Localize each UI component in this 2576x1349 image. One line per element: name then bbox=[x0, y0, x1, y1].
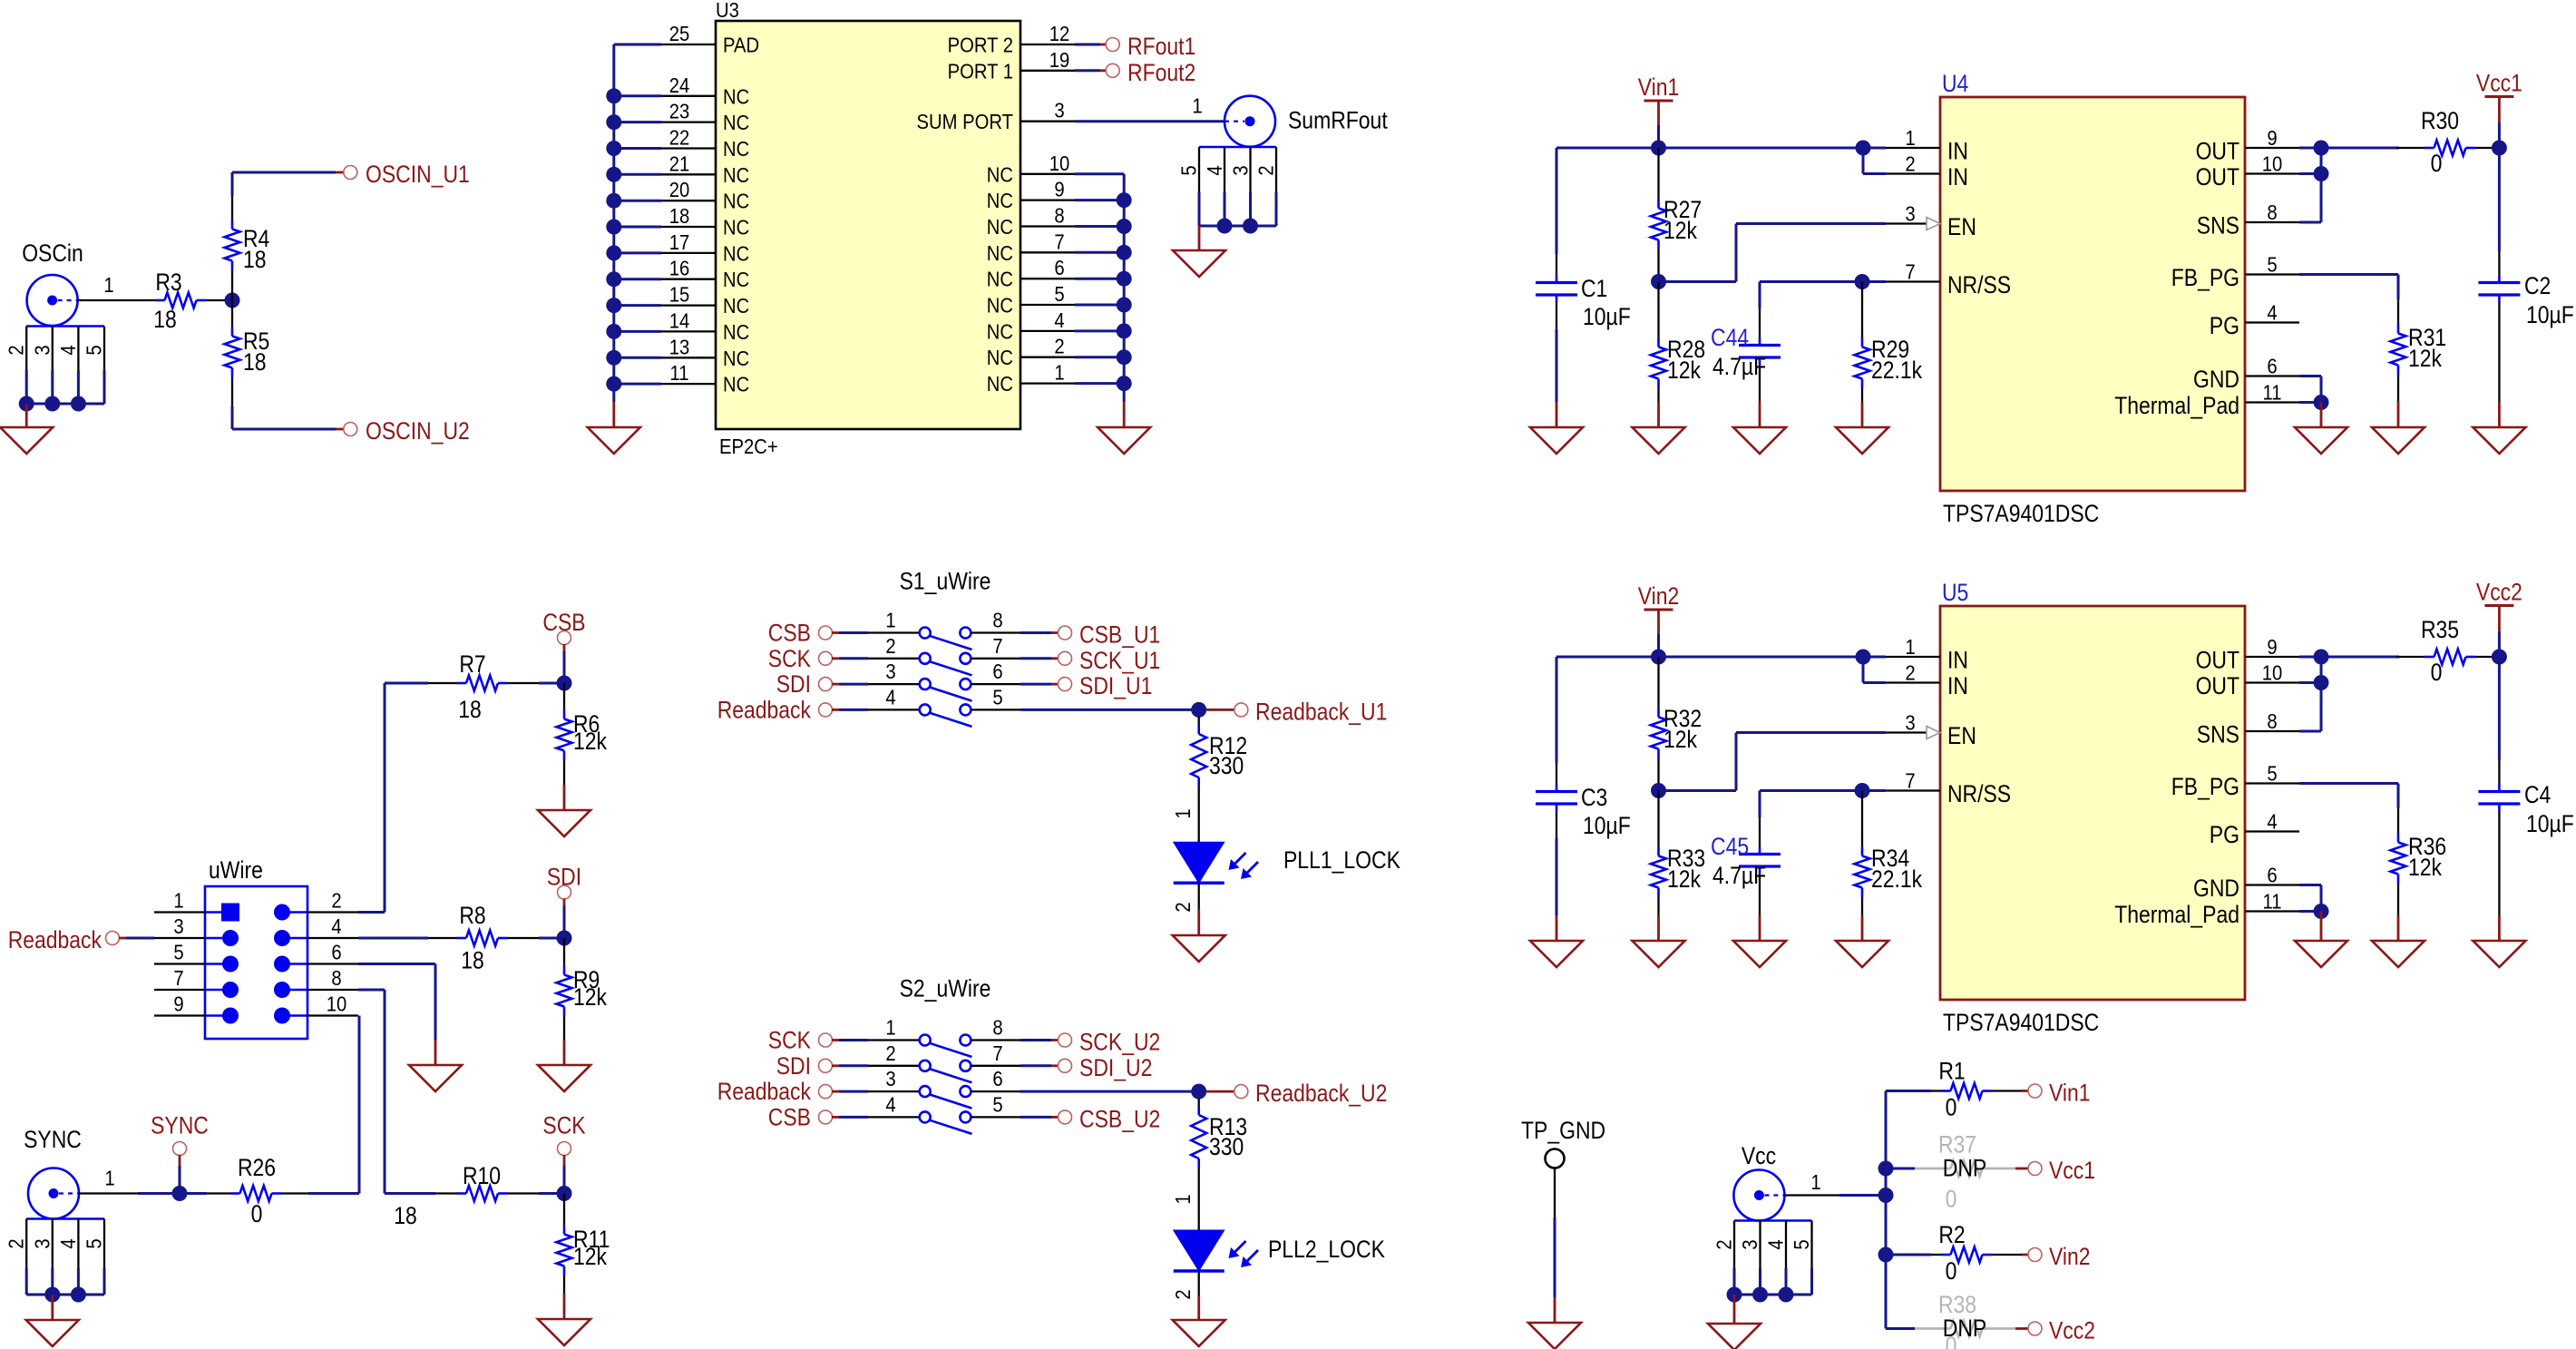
svg-text:NC: NC bbox=[723, 163, 749, 187]
svg-text:5: 5 bbox=[992, 685, 1002, 709]
svg-text:4: 4 bbox=[1054, 308, 1064, 332]
svg-text:R35: R35 bbox=[2421, 616, 2459, 643]
resistor R27 12k bbox=[1651, 148, 1702, 282]
svg-text:R1: R1 bbox=[1938, 1058, 1965, 1085]
connector uWire header body bbox=[205, 856, 307, 1039]
svg-text:12k: 12k bbox=[573, 728, 607, 755]
svg-text:6: 6 bbox=[992, 660, 1002, 683]
ground Vcc shield bbox=[1708, 1295, 1761, 1349]
svg-text:NR/SS: NR/SS bbox=[1947, 271, 2011, 298]
resistor R26 0 bbox=[187, 1154, 308, 1227]
svg-text:21: 21 bbox=[669, 152, 690, 175]
uWire pin 3 bbox=[154, 914, 239, 946]
U4 pin 10 OUT bbox=[2196, 152, 2299, 191]
resistor R38 DNP bbox=[1886, 1291, 2028, 1349]
svg-text:CSB_U2: CSB_U2 bbox=[1079, 1105, 1160, 1132]
wire NR/SS net bbox=[1760, 791, 1886, 847]
U5 pin 7 NR/SS bbox=[1886, 769, 2011, 808]
resistor R3 18 bbox=[153, 269, 206, 333]
svg-text:9: 9 bbox=[173, 992, 183, 1016]
port RFout2 bbox=[1106, 59, 1195, 86]
svg-text:24: 24 bbox=[669, 73, 690, 97]
svg-text:4: 4 bbox=[2267, 810, 2277, 834]
svg-text:NC: NC bbox=[723, 241, 749, 265]
svg-text:3: 3 bbox=[885, 1067, 895, 1090]
svg-text:1: 1 bbox=[1905, 126, 1915, 150]
U3 pin 17 NC bbox=[661, 230, 749, 266]
U5 pin 11 Thermal_Pad bbox=[2114, 890, 2299, 929]
svg-text:Vin2: Vin2 bbox=[1638, 582, 1680, 610]
svg-text:1: 1 bbox=[1810, 1170, 1820, 1194]
resistor R29 22.1k bbox=[1855, 282, 1923, 403]
svg-text:1: 1 bbox=[103, 273, 113, 297]
svg-text:4.7µF: 4.7µF bbox=[1712, 862, 1766, 889]
resistor R9 12k bbox=[557, 938, 608, 1040]
svg-text:OSCIN_U1: OSCIN_U1 bbox=[366, 161, 470, 188]
U4 pin 3 EN bbox=[1886, 202, 1976, 241]
ground U3 right bus bbox=[1098, 402, 1150, 454]
svg-text:DNP: DNP bbox=[1943, 1315, 1987, 1342]
junction divider node bbox=[1651, 783, 1666, 798]
switch pole S2_uWire pin 4 bbox=[885, 1092, 971, 1134]
svg-text:SCK_U2: SCK_U2 bbox=[1079, 1029, 1160, 1056]
port SCK_U2 bbox=[1059, 1029, 1161, 1056]
switch pole S1_uWire pin 4 bbox=[885, 685, 971, 727]
ground C44 bbox=[1733, 402, 1786, 454]
svg-text:2: 2 bbox=[1712, 1239, 1736, 1249]
connector Vcc (SMA) bbox=[1712, 1142, 1814, 1295]
svg-text:R7: R7 bbox=[459, 650, 485, 678]
svg-text:EN: EN bbox=[1947, 213, 1976, 240]
resistor R37 DNP bbox=[1886, 1131, 2028, 1213]
junction Thermal_Pad bbox=[2314, 904, 2329, 919]
wire OUT/SNS bus bbox=[2299, 148, 2399, 222]
svg-text:PORT 2: PORT 2 bbox=[948, 34, 1013, 57]
svg-text:11: 11 bbox=[2263, 890, 2282, 914]
svg-text:U3: U3 bbox=[716, 0, 739, 22]
svg-text:SCK_U1: SCK_U1 bbox=[1079, 647, 1160, 674]
U3 pin 10 NC bbox=[987, 152, 1075, 187]
capacitor C45 4.7µF bbox=[1711, 833, 1781, 915]
U4 pin 2 IN bbox=[1886, 152, 1968, 191]
port Readback (S1_uWire pin 4) bbox=[717, 696, 920, 723]
port OSCIN_U2 bbox=[344, 417, 470, 445]
switch pole S2_uWire pin 2 bbox=[885, 1041, 971, 1083]
junction dots SYNC shield bbox=[44, 1287, 86, 1303]
svg-text:0: 0 bbox=[2431, 150, 2443, 177]
wire R5 to OSCIN_U2 bbox=[232, 406, 344, 429]
svg-text:TP_GND: TP_GND bbox=[1521, 1117, 1605, 1144]
svg-text:SumRFout: SumRFout bbox=[1288, 107, 1388, 134]
ground TP_GND bbox=[1528, 1297, 1581, 1349]
svg-text:8: 8 bbox=[2267, 200, 2277, 224]
capacitor C2 10µF bbox=[2478, 148, 2573, 402]
junction CSB node bbox=[557, 676, 572, 691]
wire S1_uWire pin 6 to SDI_U1 bbox=[1020, 683, 1059, 686]
node A junction bbox=[225, 293, 240, 308]
svg-text:R30: R30 bbox=[2421, 107, 2459, 134]
svg-text:NC: NC bbox=[987, 268, 1013, 291]
svg-text:6: 6 bbox=[331, 941, 341, 964]
svg-text:NC: NC bbox=[987, 215, 1013, 239]
resistor R7 18 bbox=[428, 650, 539, 723]
svg-text:2: 2 bbox=[5, 1238, 28, 1248]
junction Vcc2 node bbox=[2492, 650, 2507, 665]
svg-text:PG: PG bbox=[2210, 312, 2239, 339]
switch pole S1_uWire pin 8 bbox=[960, 609, 1020, 639]
svg-text:NR/SS: NR/SS bbox=[1947, 780, 2011, 807]
svg-text:10: 10 bbox=[1049, 152, 1070, 175]
resistor R1 0 bbox=[1931, 1058, 2028, 1121]
svg-text:EN: EN bbox=[1947, 722, 1976, 749]
power port Vin1 bbox=[1638, 73, 1680, 148]
svg-text:NC: NC bbox=[987, 372, 1013, 396]
svg-text:2: 2 bbox=[1171, 1289, 1195, 1299]
svg-text:5: 5 bbox=[2267, 253, 2277, 277]
svg-text:NC: NC bbox=[987, 346, 1013, 369]
svg-text:CSB_U1: CSB_U1 bbox=[1079, 621, 1160, 649]
wire uWire pin4 to R8 bbox=[358, 937, 428, 940]
capacitor C4 10µF bbox=[2478, 657, 2573, 915]
svg-text:12: 12 bbox=[1049, 22, 1070, 45]
ground SumRFout shield bbox=[1173, 226, 1225, 277]
ground R9 bbox=[538, 1040, 590, 1091]
U3 pin 4 NC bbox=[987, 308, 1075, 344]
svg-text:12k: 12k bbox=[1664, 726, 1697, 753]
svg-text:Readback_U2: Readback_U2 bbox=[1255, 1080, 1387, 1107]
svg-text:4: 4 bbox=[56, 345, 80, 355]
svg-text:IN: IN bbox=[1947, 647, 1968, 674]
svg-text:IN: IN bbox=[1947, 138, 1968, 165]
port SYNC bbox=[151, 1112, 209, 1194]
port SDI (S2_uWire pin 2) bbox=[776, 1052, 920, 1080]
U3 pin 2 NC bbox=[987, 335, 1075, 370]
svg-text:10: 10 bbox=[2262, 152, 2283, 176]
junction Vin1 node bbox=[1651, 141, 1666, 156]
svg-text:C4: C4 bbox=[2524, 781, 2551, 808]
svg-text:Readback_U1: Readback_U1 bbox=[1255, 698, 1387, 725]
svg-text:12k: 12k bbox=[573, 983, 607, 1011]
uWire pin 1 bbox=[154, 889, 239, 922]
svg-text:13: 13 bbox=[669, 335, 690, 358]
svg-text:10: 10 bbox=[327, 992, 347, 1016]
svg-text:10µF: 10µF bbox=[2526, 301, 2574, 328]
svg-text:SYNC: SYNC bbox=[151, 1112, 209, 1139]
port SCK (S2_uWire pin 1) bbox=[768, 1027, 920, 1054]
svg-text:3: 3 bbox=[30, 1238, 54, 1248]
svg-text:CSB: CSB bbox=[768, 1103, 811, 1130]
svg-text:7: 7 bbox=[1905, 769, 1915, 793]
svg-text:10µF: 10µF bbox=[1583, 812, 1631, 839]
svg-text:6: 6 bbox=[1054, 256, 1064, 279]
wire Vin1 rail bbox=[1556, 148, 1886, 174]
wire uWire pin6 to ground bbox=[358, 964, 435, 1041]
switch pole S2_uWire pin 5 bbox=[960, 1092, 1020, 1122]
svg-text:1: 1 bbox=[173, 889, 183, 913]
svg-text:C44: C44 bbox=[1711, 324, 1749, 351]
junction dots Vcc shield bbox=[1727, 1287, 1794, 1303]
svg-text:IN: IN bbox=[1947, 672, 1968, 699]
svg-text:2: 2 bbox=[1254, 165, 1278, 175]
capacitor C1 10µF bbox=[1536, 148, 1631, 402]
IC U5 TPS7A9401DSC body bbox=[1940, 579, 2245, 1036]
svg-text:SCK: SCK bbox=[768, 645, 811, 672]
wire OSCin pin1 to R3 bbox=[78, 273, 155, 300]
svg-text:S1_uWire: S1_uWire bbox=[900, 568, 991, 595]
junction OUT9 bbox=[2314, 141, 2329, 156]
svg-text:4: 4 bbox=[56, 1238, 80, 1248]
svg-text:20: 20 bbox=[669, 178, 690, 201]
svg-text:25: 25 bbox=[669, 22, 690, 45]
svg-text:8: 8 bbox=[1054, 204, 1064, 228]
svg-text:5: 5 bbox=[2267, 762, 2277, 786]
port Readback (S2_uWire pin 3) bbox=[717, 1078, 920, 1105]
svg-text:SNS: SNS bbox=[2197, 721, 2239, 748]
ground LED D1 bbox=[1173, 909, 1225, 962]
port SDI (S1_uWire pin 3) bbox=[776, 670, 920, 698]
wire Vin2 rail bbox=[1556, 657, 1886, 683]
svg-text:RFout1: RFout1 bbox=[1127, 33, 1195, 60]
wire R8 to SDI node bbox=[539, 937, 557, 940]
connector SumRFout (SMA) bbox=[1177, 96, 1389, 226]
U5 pin 1 IN bbox=[1886, 635, 1968, 674]
svg-text:PLL2_LOCK: PLL2_LOCK bbox=[1268, 1236, 1385, 1263]
svg-text:10µF: 10µF bbox=[2526, 810, 2574, 837]
svg-text:Vcc: Vcc bbox=[1742, 1142, 1776, 1169]
wire S2_uWire to Readback_U2 node bbox=[1020, 1090, 1192, 1093]
ground R29 bbox=[1836, 402, 1888, 454]
svg-text:1: 1 bbox=[1171, 808, 1195, 818]
svg-text:GND: GND bbox=[2193, 875, 2239, 902]
svg-text:4: 4 bbox=[885, 685, 895, 709]
resistor R2 0 bbox=[1931, 1221, 2028, 1285]
svg-text:NC: NC bbox=[723, 216, 749, 239]
svg-text:FB_PG: FB_PG bbox=[2171, 773, 2239, 800]
port SCK (S1_uWire pin 2) bbox=[768, 645, 920, 672]
svg-text:Thermal_Pad: Thermal_Pad bbox=[2114, 392, 2239, 419]
wire SUM PORT to SumRFout bbox=[1075, 94, 1225, 122]
U5 pin 9 OUT bbox=[2196, 635, 2299, 674]
svg-text:11: 11 bbox=[2263, 381, 2282, 405]
wire Vcc distribution bus bbox=[1886, 1091, 1931, 1329]
resistor R32 12k bbox=[1651, 657, 1702, 791]
svg-text:2: 2 bbox=[1905, 661, 1915, 685]
svg-text:18: 18 bbox=[243, 348, 267, 376]
svg-text:CSB: CSB bbox=[768, 620, 811, 647]
uWire pin 9 bbox=[154, 992, 239, 1024]
svg-text:3: 3 bbox=[1905, 711, 1915, 735]
U3 pin 18 NC bbox=[661, 204, 749, 239]
svg-text:OUT: OUT bbox=[2196, 163, 2239, 191]
ground C3 bbox=[1530, 915, 1583, 967]
port SDI_U1 bbox=[1059, 672, 1153, 699]
svg-text:FB_PG: FB_PG bbox=[2171, 264, 2239, 291]
svg-text:3: 3 bbox=[173, 914, 183, 938]
svg-text:3: 3 bbox=[885, 660, 895, 683]
svg-text:12k: 12k bbox=[2408, 854, 2442, 881]
svg-text:7: 7 bbox=[1054, 230, 1064, 253]
U5 pin 10 OUT bbox=[2196, 661, 2299, 700]
U3 pin 21 NC bbox=[661, 152, 749, 187]
U4 pin 6 GND bbox=[2193, 355, 2299, 394]
wire GND/Thermal_Pad bbox=[2299, 376, 2321, 403]
svg-text:5: 5 bbox=[83, 1238, 106, 1248]
svg-text:22.1k: 22.1k bbox=[1871, 357, 1923, 384]
ground R6 bbox=[538, 785, 590, 836]
ground R36 bbox=[2372, 915, 2425, 967]
ground uWire pin6 bbox=[409, 1040, 462, 1091]
resistor R33 12k bbox=[1651, 791, 1705, 916]
svg-text:Vin1: Vin1 bbox=[2049, 1080, 2091, 1107]
U3 pin 16 NC bbox=[661, 257, 749, 292]
svg-text:1: 1 bbox=[885, 1016, 895, 1040]
uWire pin 7 bbox=[154, 966, 239, 998]
U3 pin 5 NC bbox=[987, 282, 1075, 318]
svg-text:4: 4 bbox=[1203, 165, 1226, 175]
junction Vin2 node bbox=[1651, 650, 1666, 665]
U3 pin 1 NC bbox=[987, 361, 1075, 396]
switch pole S1_uWire pin 5 bbox=[960, 685, 1020, 715]
switch pole S2_uWire pin 1 bbox=[885, 1016, 971, 1058]
IC U3 EP2C+ body bbox=[716, 0, 1020, 458]
svg-text:NC: NC bbox=[987, 319, 1013, 343]
svg-text:PLL1_LOCK: PLL1_LOCK bbox=[1283, 846, 1400, 874]
U3 pin 6 NC bbox=[987, 256, 1075, 291]
svg-text:C2: C2 bbox=[2524, 272, 2551, 299]
svg-text:NC: NC bbox=[723, 373, 749, 396]
U4 pin 5 FB_PG bbox=[2171, 253, 2299, 292]
wire U3 right NC bus bbox=[1075, 174, 1124, 402]
port OSCIN_U1 bbox=[344, 161, 470, 188]
svg-text:12k: 12k bbox=[1667, 865, 1701, 893]
junction Readback_U1 node bbox=[1191, 702, 1206, 718]
port CSB (S2_uWire pin 4) bbox=[768, 1103, 920, 1130]
svg-text:NC: NC bbox=[723, 190, 749, 213]
svg-text:NC: NC bbox=[723, 111, 749, 134]
svg-text:22.1k: 22.1k bbox=[1871, 865, 1923, 893]
port CSB (S1_uWire pin 1) bbox=[768, 620, 920, 647]
switch pole S1_uWire pin 6 bbox=[960, 660, 1020, 689]
svg-text:OUT: OUT bbox=[2196, 138, 2239, 165]
junction IN pins bbox=[1856, 141, 1871, 156]
junction Thermal_Pad bbox=[2314, 395, 2329, 410]
svg-text:16: 16 bbox=[669, 257, 690, 280]
U4 pin 8 SNS bbox=[2197, 200, 2299, 239]
svg-text:0: 0 bbox=[251, 1200, 263, 1227]
U3 pin 7 NC bbox=[987, 230, 1075, 265]
junction SCK node bbox=[557, 1186, 572, 1201]
ground R34 bbox=[1836, 915, 1888, 967]
svg-text:SDI_U2: SDI_U2 bbox=[1079, 1054, 1152, 1081]
port SCK bbox=[542, 1112, 585, 1194]
svg-text:2: 2 bbox=[885, 634, 895, 658]
svg-text:1: 1 bbox=[1905, 635, 1915, 659]
wire EN net bbox=[1659, 733, 1887, 791]
junction dots U3 right bus bbox=[1117, 192, 1132, 391]
svg-text:NC: NC bbox=[987, 162, 1013, 186]
svg-text:Vcc1: Vcc1 bbox=[2049, 1157, 2095, 1184]
svg-text:4: 4 bbox=[2267, 301, 2277, 325]
resistor R11 12k bbox=[557, 1194, 610, 1295]
svg-text:SYNC: SYNC bbox=[24, 1126, 82, 1153]
U3 pin 19 PORT 1 bbox=[948, 48, 1075, 83]
port Vin1 bbox=[2028, 1080, 2091, 1107]
svg-text:9: 9 bbox=[2267, 126, 2277, 150]
connector SYNC (SMA) bbox=[5, 1126, 106, 1295]
junction NR/SS node bbox=[1855, 274, 1870, 289]
svg-text:5: 5 bbox=[173, 941, 183, 964]
port CSB_U1 bbox=[1059, 621, 1161, 649]
connector OSCin (SMA) bbox=[5, 239, 106, 404]
junction OUT10 bbox=[2314, 675, 2329, 690]
U5 pin 3 EN bbox=[1886, 711, 1976, 750]
wire pin12 to RFout1 bbox=[1075, 44, 1107, 46]
capacitor C44 4.7µF bbox=[1711, 324, 1781, 402]
svg-text:U4: U4 bbox=[1942, 70, 1968, 97]
svg-text:SDI: SDI bbox=[776, 670, 811, 698]
svg-text:12k: 12k bbox=[1664, 217, 1697, 244]
svg-text:14: 14 bbox=[669, 308, 690, 332]
junction SYNC node bbox=[172, 1186, 188, 1201]
svg-text:7: 7 bbox=[1905, 260, 1915, 284]
ground U3 left bus bbox=[588, 402, 640, 454]
svg-text:DNP: DNP bbox=[1943, 1155, 1987, 1182]
power port Vcc1 bbox=[2476, 70, 2522, 149]
svg-text:5: 5 bbox=[1177, 165, 1201, 175]
LED D2 PLL2_LOCK bbox=[1171, 1230, 1385, 1300]
svg-text:0: 0 bbox=[2431, 659, 2443, 686]
svg-text:3: 3 bbox=[1905, 202, 1915, 226]
wire node A to OSCIN_U1 bbox=[232, 172, 344, 196]
junction dots SumRFout shield bbox=[1217, 219, 1259, 234]
junction bus at Vin2 row bbox=[1878, 1247, 1894, 1263]
svg-text:NC: NC bbox=[723, 347, 749, 370]
svg-text:5: 5 bbox=[1790, 1239, 1813, 1249]
svg-text:Vcc1: Vcc1 bbox=[2476, 70, 2522, 97]
U3 pin 25 PAD bbox=[661, 22, 759, 57]
svg-text:9: 9 bbox=[1054, 178, 1064, 201]
resistor R6 12k bbox=[557, 683, 608, 785]
junction divider node bbox=[1651, 274, 1666, 289]
U3 pin 3 SUM PORT bbox=[917, 99, 1076, 134]
svg-text:6: 6 bbox=[992, 1067, 1002, 1090]
wire OUT/SNS bus bbox=[2299, 657, 2399, 731]
capacitor C3 10µF bbox=[1536, 657, 1631, 915]
svg-text:NC: NC bbox=[723, 268, 749, 291]
junction SDI node bbox=[557, 931, 572, 946]
switch pole S2_uWire pin 7 bbox=[960, 1041, 1020, 1071]
svg-text:18: 18 bbox=[458, 696, 482, 723]
svg-text:18: 18 bbox=[394, 1202, 417, 1229]
svg-text:4: 4 bbox=[331, 914, 341, 938]
uWire pin 8 bbox=[274, 966, 358, 998]
svg-text:2: 2 bbox=[331, 889, 341, 913]
wire uWire pin10 to R26 bbox=[308, 1016, 359, 1194]
svg-text:4.7µF: 4.7µF bbox=[1712, 353, 1766, 380]
resistor R31 12k bbox=[2299, 275, 2446, 403]
svg-text:SDI_U1: SDI_U1 bbox=[1079, 672, 1152, 699]
svg-text:4: 4 bbox=[1764, 1239, 1788, 1249]
svg-text:18: 18 bbox=[669, 204, 690, 228]
svg-text:IN: IN bbox=[1947, 163, 1968, 191]
wire R3 to node A bbox=[206, 299, 232, 301]
U3 pin 13 NC bbox=[661, 335, 749, 370]
wire S1_uWire pin 8 to CSB_U1 bbox=[1020, 631, 1059, 634]
resistor R34 22.1k bbox=[1855, 791, 1923, 916]
U4 pin 9 OUT bbox=[2196, 126, 2299, 165]
svg-text:330: 330 bbox=[1209, 752, 1244, 779]
switch pole S2_uWire pin 8 bbox=[960, 1016, 1020, 1046]
